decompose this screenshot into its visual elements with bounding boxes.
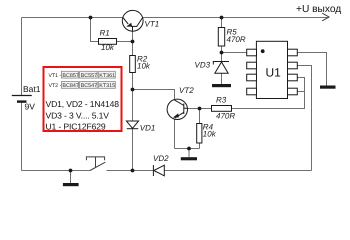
table box KT315 (98, 82, 115, 90)
wire R1 net: rail junction down and into R1 (91, 18, 99, 42)
wire battery - down to bottom rail (21, 103, 23, 171)
wire R4 bottom to emitter net (199, 143, 201, 149)
svg-text:470R: 470R (227, 35, 246, 44)
wire VD1 cathode down to bottom rail (132, 129, 134, 171)
U1 pin 4 (247, 88, 257, 95)
wire left drop from rail to battery + (21, 18, 23, 96)
zener diode VD3 (213, 62, 229, 74)
svg-text:470R: 470R (216, 111, 235, 120)
svg-text:VD1, VD2 - 1N4148: VD1, VD2 - 1N4148 (46, 99, 120, 109)
svg-text:10k: 10k (137, 61, 151, 70)
resistor R2 (130, 56, 136, 73)
U1 pin 5 (288, 88, 298, 95)
resistor R5 (218, 28, 224, 47)
output arrow +U (322, 13, 329, 21)
IC U1 PIC12F629 DIP-8 body (256, 41, 287, 98)
U1 pin1 mark dot (261, 49, 265, 53)
ground under VT2 emitter (181, 149, 197, 161)
wire R2 bottom to junction node A (132, 73, 134, 90)
table box BC557 (80, 71, 98, 79)
wire top +9V rail from battery to output arrow (22, 17, 329, 19)
svg-text:VT1: VT1 (145, 19, 160, 28)
wire right riser from bottom rail up to U1 pin7 (298, 66, 312, 171)
table box KT361 (98, 71, 115, 79)
svg-text:9V: 9V (25, 102, 36, 112)
wire node A down to VD1 anode (132, 90, 134, 122)
svg-text:BC857: BC857 (62, 73, 78, 79)
wire VT2 base lead to R3 junction (188, 108, 212, 110)
wire node A to VT2 collector tail (133, 90, 175, 100)
U1 pin 7 (288, 62, 298, 69)
U1 pin 3 (247, 74, 257, 81)
ground right of U1 (320, 86, 336, 89)
wire VT2 emitter tail down (174, 118, 176, 149)
battery Bat1 (12, 96, 32, 103)
svg-text:BC547: BC547 (81, 83, 97, 89)
svg-text:VD3 - 3 V.... 5.1V: VD3 - 3 V.... 5.1V (46, 110, 110, 120)
svg-text:VT2 -: VT2 - (49, 83, 62, 89)
svg-text:VD2: VD2 (153, 154, 169, 163)
U1 pin 6 (288, 74, 298, 81)
wire bottom rail left section to button (22, 170, 91, 172)
resistor R1 (99, 39, 117, 45)
junction node VD3-pin1 (220, 51, 224, 55)
svg-text:VD3: VD3 (195, 60, 211, 69)
svg-text:U1 - PIC12F629: U1 - PIC12F629 (46, 122, 106, 132)
junction node emitter-ground (187, 147, 191, 151)
wire R3 right to U1 pin6 riser (232, 78, 305, 109)
svg-text:+U выход: +U выход (296, 4, 341, 15)
junction node rail-R5 (220, 16, 224, 20)
svg-text:KT361: KT361 (99, 73, 115, 79)
wire U1 pin8 to right ground (298, 53, 327, 86)
wire VD3 node to U1 pin1 (222, 52, 247, 54)
svg-text:VD1: VD1 (140, 123, 156, 132)
U1 pin 2 (247, 62, 257, 69)
junction node A R2-VD1-VT2 (131, 88, 135, 92)
junction node R1-VT1 base (131, 40, 135, 44)
parts table red box (44, 67, 122, 131)
table box BC547 (80, 82, 98, 90)
junction node R3-R4-base (198, 107, 202, 111)
junction node VD1-rail (131, 169, 135, 173)
ground under VD3 (212, 84, 231, 87)
svg-text:U1: U1 (266, 65, 282, 79)
wire bottom rail button to VD2 and right riser (107, 170, 312, 172)
transistor VT2 (167, 99, 187, 119)
U1 pin 1 (247, 49, 257, 56)
table box BC857 (61, 71, 78, 79)
U1 pin 8 (288, 49, 298, 56)
svg-text:BC557: BC557 (81, 73, 97, 79)
diode VD2 (153, 165, 164, 176)
svg-text:Bat1: Bat1 (23, 84, 41, 94)
svg-text:VT2: VT2 (179, 86, 194, 95)
wire R4 top to base junction (199, 109, 201, 124)
wire VT1 base down through R1 junction to R2 top (132, 31, 134, 55)
wire VD3 anode to ground stem (221, 73, 223, 84)
wire R5 top to rail (221, 18, 223, 28)
resistor R4 (197, 124, 202, 144)
junction node bottom ground (69, 169, 73, 173)
svg-text:VT1 -: VT1 - (49, 73, 62, 79)
svg-text:BC847: BC847 (62, 83, 78, 89)
svg-text:KT315: KT315 (99, 83, 115, 89)
resistor R3 (212, 106, 232, 112)
table box BC847 (61, 82, 78, 90)
svg-text:10k: 10k (203, 130, 217, 139)
wire emitter net horizontal (175, 148, 200, 150)
wire R1 right side to VT1 base line (117, 41, 133, 43)
transistor VT1 (122, 10, 143, 31)
diode VD1 (126, 121, 138, 129)
svg-text:R1: R1 (100, 29, 110, 38)
push button SB1 (86, 157, 105, 171)
ground under button (63, 171, 79, 187)
junction node rail-R1 (89, 16, 93, 20)
svg-text:R3: R3 (216, 96, 227, 105)
wire U1 pin5 to riser (298, 91, 305, 93)
wire R5 bottom to VD3 cathode (221, 46, 223, 62)
svg-text:10k: 10k (101, 43, 115, 52)
